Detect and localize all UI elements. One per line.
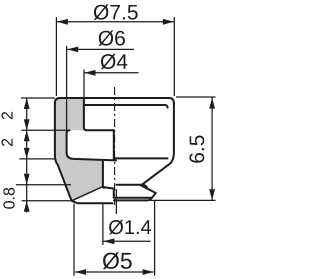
ext bottom y=200.4 <box>150 199 216 201</box>
bore wall + cavity ceiling <box>84 98 114 130</box>
top face with rounded corners <box>55 98 174 104</box>
dim/leader line <box>103 240 150 242</box>
ext top y=97 <box>176 96 216 98</box>
ext y=158.9 <box>19 158 55 160</box>
cavity floor right <box>114 157 168 159</box>
hole left wall <box>103 161 114 197</box>
arrows on left chain <box>24 98 30 109</box>
arrowheads Ø7.5 <box>57 19 68 25</box>
ext line right x=174.3 <box>173 17 175 96</box>
right lip top edge <box>117 185 148 188</box>
ext top y=98 <box>21 97 55 99</box>
ext left x=102.9 <box>102 203 104 245</box>
center step <box>113 130 115 160</box>
dim line <box>67 48 134 50</box>
dim vertical <box>211 98 213 201</box>
dim vertical <box>26 98 28 213</box>
part outline: top face <box>55 98 174 203</box>
lip crease (left) <box>72 187 104 201</box>
right outer edge down to lip <box>114 103 174 200</box>
flange + outer wall + bell wall section fill <box>55 98 103 201</box>
hole bottom line right <box>114 197 151 199</box>
dim line <box>57 21 174 23</box>
ext line left x=56.4 <box>55 17 57 96</box>
inner recess floor line (y=105) <box>84 105 168 108</box>
ext y=184.7 <box>16 184 71 186</box>
ext line (shared with cavity wall) x=66.6 <box>66 46 68 130</box>
label Ø7.5 <box>94 4 138 20</box>
ext line x=84 <box>83 70 85 98</box>
ext right x=154.6 <box>154 201 156 276</box>
ext y=130.3 <box>21 129 66 131</box>
ext y=200.8 <box>22 200 74 202</box>
centerline (dash-dot) <box>114 87 116 205</box>
labels 2 / 2 / 0.8 (rotated) <box>1 112 12 119</box>
ext left x=74 <box>73 204 75 276</box>
left outer edge down to lip tip <box>55 103 113 203</box>
ext right x=116.4 <box>115 189 117 214</box>
cavity left wall + fillet + cavity floor left <box>67 130 116 160</box>
dim line <box>75 271 154 273</box>
dim line <box>85 72 139 74</box>
suction pad cross-section: gray sectioned material (left half) <box>55 98 103 201</box>
